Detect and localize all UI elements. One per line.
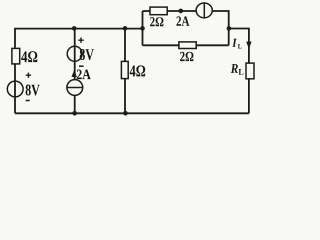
current arrow IL down <box>246 42 251 49</box>
label IL L <box>238 44 242 48</box>
current direction arrow I1 up <box>72 70 77 77</box>
load resistor RL <box>246 63 254 79</box>
wire to load <box>229 29 249 64</box>
wire top branch left <box>143 10 151 12</box>
wire left branch lower <box>14 64 16 113</box>
resistor R3 2ohm top <box>150 7 167 15</box>
resistor R4 2ohm lower <box>179 42 196 49</box>
wire branch V1 lower <box>74 95 76 113</box>
wire top branch right <box>212 11 229 45</box>
node dot bottom R2 <box>123 111 128 116</box>
voltage source V1 8V left circle <box>7 81 23 97</box>
current source I2 2A circle top <box>196 3 212 18</box>
node dot top branch <box>179 9 184 14</box>
plus mark V2 <box>78 39 83 41</box>
node dot bottom V1 <box>72 111 77 116</box>
label 8V left <box>26 85 40 96</box>
resistor R1 4ohm left <box>12 48 20 64</box>
label 4ohm mid <box>130 65 146 76</box>
wire lower branch right <box>196 44 229 46</box>
label RL R <box>231 64 238 73</box>
label RL L <box>239 69 244 75</box>
current source I1 bar <box>67 87 83 89</box>
node dot C right <box>227 26 232 31</box>
minus mark V2 <box>79 65 84 67</box>
plus mark V1 <box>26 74 31 76</box>
label 2ohm top <box>150 17 163 26</box>
wire branch R2 lower <box>124 79 126 114</box>
wire lower branch left <box>143 44 179 46</box>
voltage source V2 8V circle <box>67 46 82 61</box>
wire branch V1 upper <box>74 29 76 80</box>
wire node B vertical <box>142 11 144 45</box>
node dot top V1 <box>72 26 77 31</box>
label 4ohm left <box>21 51 37 62</box>
label 2A mid <box>77 70 91 80</box>
wire top branch mid <box>167 10 196 12</box>
wire load bottom <box>248 79 250 113</box>
wire bottom rail <box>15 112 249 114</box>
wire top rail <box>15 29 143 48</box>
current source I1 2A circle <box>67 80 83 96</box>
label 2ohm lower <box>180 52 193 61</box>
node dot top R2 <box>123 26 128 31</box>
label IL I <box>232 39 237 47</box>
wire branch R2 upper <box>124 29 126 62</box>
label 8V mid <box>80 49 94 60</box>
current source I2 bar <box>203 3 205 18</box>
resistor R2 4ohm middle <box>121 61 128 78</box>
minus mark V1 <box>26 100 30 102</box>
label 2A top <box>176 16 189 25</box>
node dot B <box>140 26 145 31</box>
